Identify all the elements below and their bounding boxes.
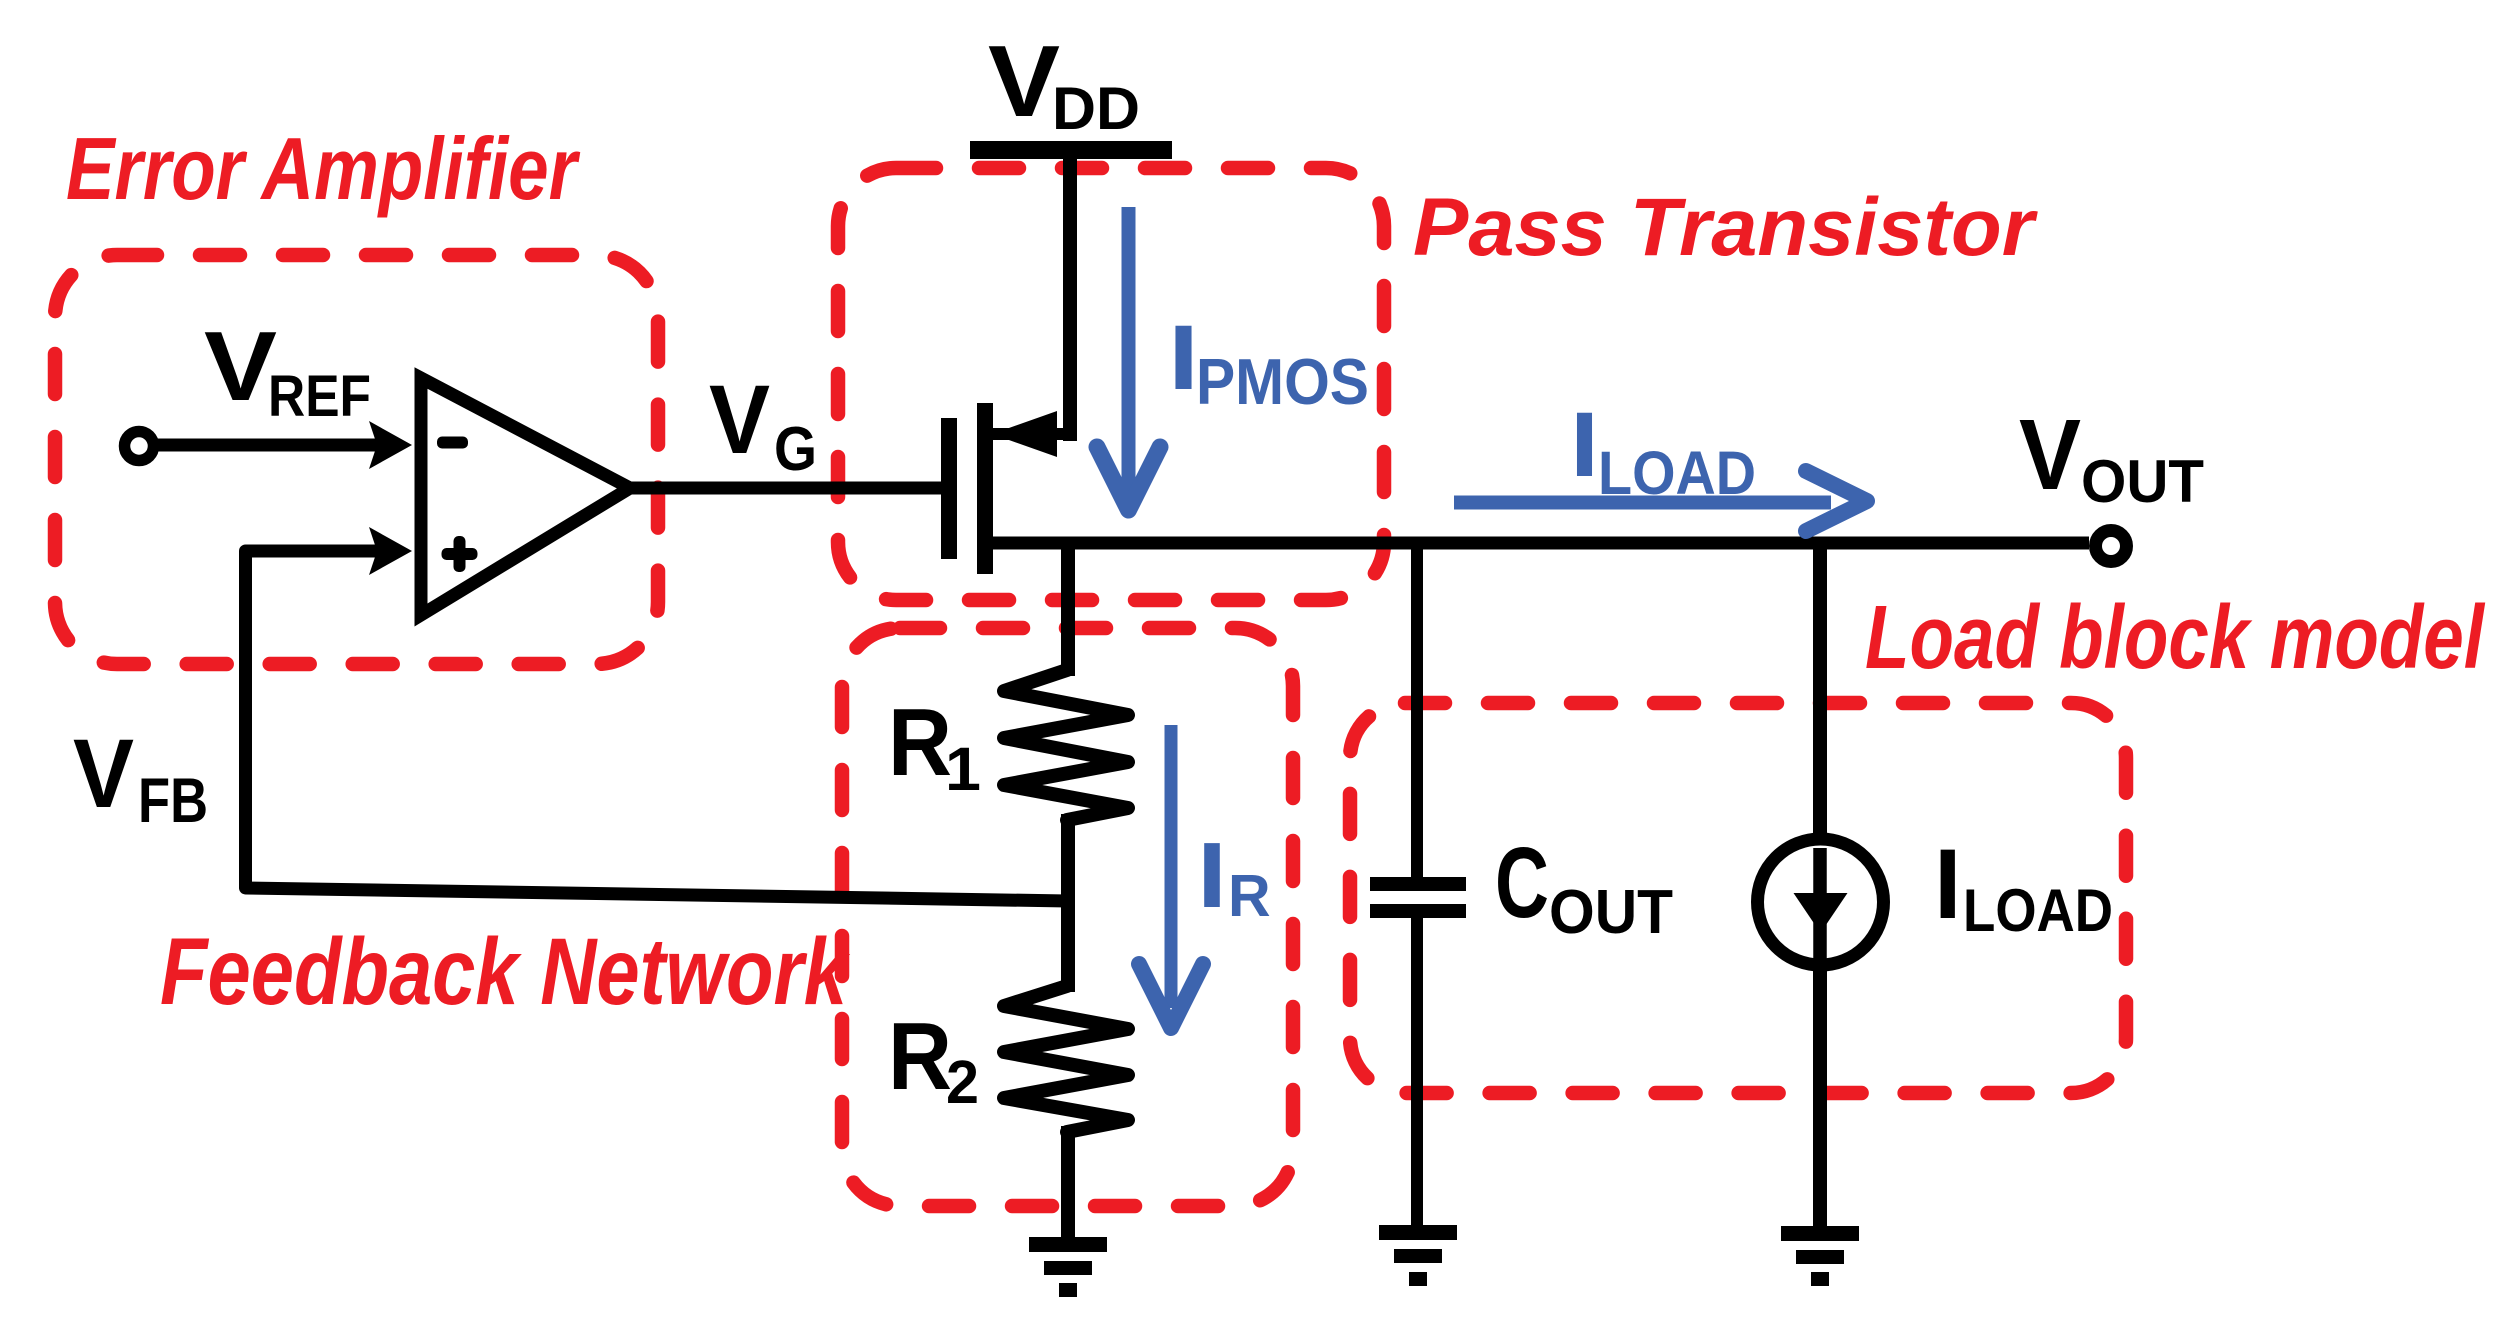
resistor R1	[1004, 670, 1128, 820]
label ILOAD blue	[1570, 394, 1756, 507]
wire VREF input	[157, 439, 398, 452]
label ILOAD black	[1934, 828, 2113, 944]
svg-text:2: 2	[946, 1048, 979, 1116]
label R2	[888, 1003, 979, 1116]
label VOUT	[2019, 399, 2204, 515]
op-amp plus sign	[442, 548, 478, 560]
blue arrow ILOAD	[1454, 496, 1831, 510]
blue arrow IPMOS	[1122, 207, 1136, 497]
svg-text:LOAD: LOAD	[1963, 877, 2113, 944]
svg-text:LOAD: LOAD	[1598, 439, 1756, 507]
wire + input with VFB feedback run	[246, 551, 1069, 901]
svg-text:R: R	[888, 1003, 952, 1110]
ground under ILOAD	[1781, 1226, 1859, 1286]
transistor Q1 gate bar	[941, 418, 957, 559]
terminal VOUT	[2096, 531, 2127, 562]
wire drop to COUT	[1411, 543, 1423, 880]
wire drop to R1	[1061, 543, 1075, 676]
label IR	[1197, 823, 1271, 929]
svg-text:V: V	[204, 311, 277, 421]
svg-text:I: I	[1168, 307, 1199, 409]
error amplifier dashed box	[55, 255, 658, 664]
load block model dashed box	[1350, 703, 2126, 1093]
label VREF	[204, 311, 371, 429]
svg-text:PMOS: PMOS	[1196, 345, 1369, 418]
wire output rail to VOUT	[985, 537, 2089, 550]
svg-text:OUT: OUT	[1549, 878, 1673, 947]
svg-text:1: 1	[945, 735, 981, 803]
terminal VREF	[125, 432, 154, 461]
wire VDD drop	[1063, 152, 1077, 441]
wire R1-R2 junction node VFB	[1061, 814, 1075, 992]
wire R2 to ground	[1061, 1126, 1075, 1244]
svg-text:DD: DD	[1052, 75, 1140, 142]
feedback network dashed box	[842, 628, 1293, 1206]
wire PMOS source line	[990, 428, 1077, 440]
svg-text:Pass Transistor: Pass Transistor	[1413, 182, 2038, 273]
transistor Q1 source arrow	[992, 411, 1057, 457]
svg-text:OUT: OUT	[2081, 448, 2204, 515]
label VFB	[73, 719, 208, 836]
arrowhead into + input	[369, 527, 412, 575]
current source inner arrow	[1813, 848, 1827, 985]
svg-text:I: I	[1197, 823, 1227, 927]
label VG	[709, 365, 817, 484]
svg-text:REF: REF	[268, 364, 371, 429]
op-amp U1 triangle	[421, 378, 630, 615]
svg-text:V: V	[73, 719, 134, 828]
svg-text:Feedback Network: Feedback Network	[160, 919, 850, 1025]
VDD supply bar	[970, 141, 1172, 159]
svg-text:R: R	[1228, 863, 1271, 929]
arrowhead into - input	[369, 421, 412, 469]
svg-text:V: V	[988, 26, 1060, 138]
resistor R2	[1004, 986, 1128, 1132]
wire op-amp output VG	[628, 482, 943, 495]
label R1	[888, 689, 981, 803]
label VDD	[988, 26, 1140, 142]
svg-text:G: G	[774, 415, 817, 484]
ground under R2	[1029, 1237, 1107, 1297]
svg-text:I: I	[1570, 394, 1599, 496]
svg-text:Error Amplifier: Error Amplifier	[66, 119, 581, 218]
svg-text:V: V	[709, 365, 770, 474]
svg-text:I: I	[1934, 828, 1962, 939]
ground under COUT	[1379, 1225, 1457, 1286]
op-amp minus sign	[437, 437, 468, 449]
pass transistor dashed box	[838, 168, 1384, 600]
wire drop through ILOAD source to ground	[1813, 543, 1827, 1233]
transistor Q1 channel bar	[977, 403, 993, 574]
wire COUT to ground	[1411, 915, 1423, 1232]
svg-text:R: R	[888, 689, 952, 796]
current source ILOAD circle	[1758, 839, 1884, 965]
svg-text:C: C	[1495, 827, 1549, 939]
svg-text:V: V	[2019, 399, 2081, 511]
label COUT	[1495, 827, 1673, 947]
blue arrow IR	[1165, 725, 1178, 1008]
capacitor COUT plates	[1370, 877, 1466, 891]
svg-text:Load block model: Load block model	[1865, 588, 2486, 688]
label IPMOS	[1168, 307, 1369, 418]
svg-text:FB: FB	[138, 766, 208, 836]
